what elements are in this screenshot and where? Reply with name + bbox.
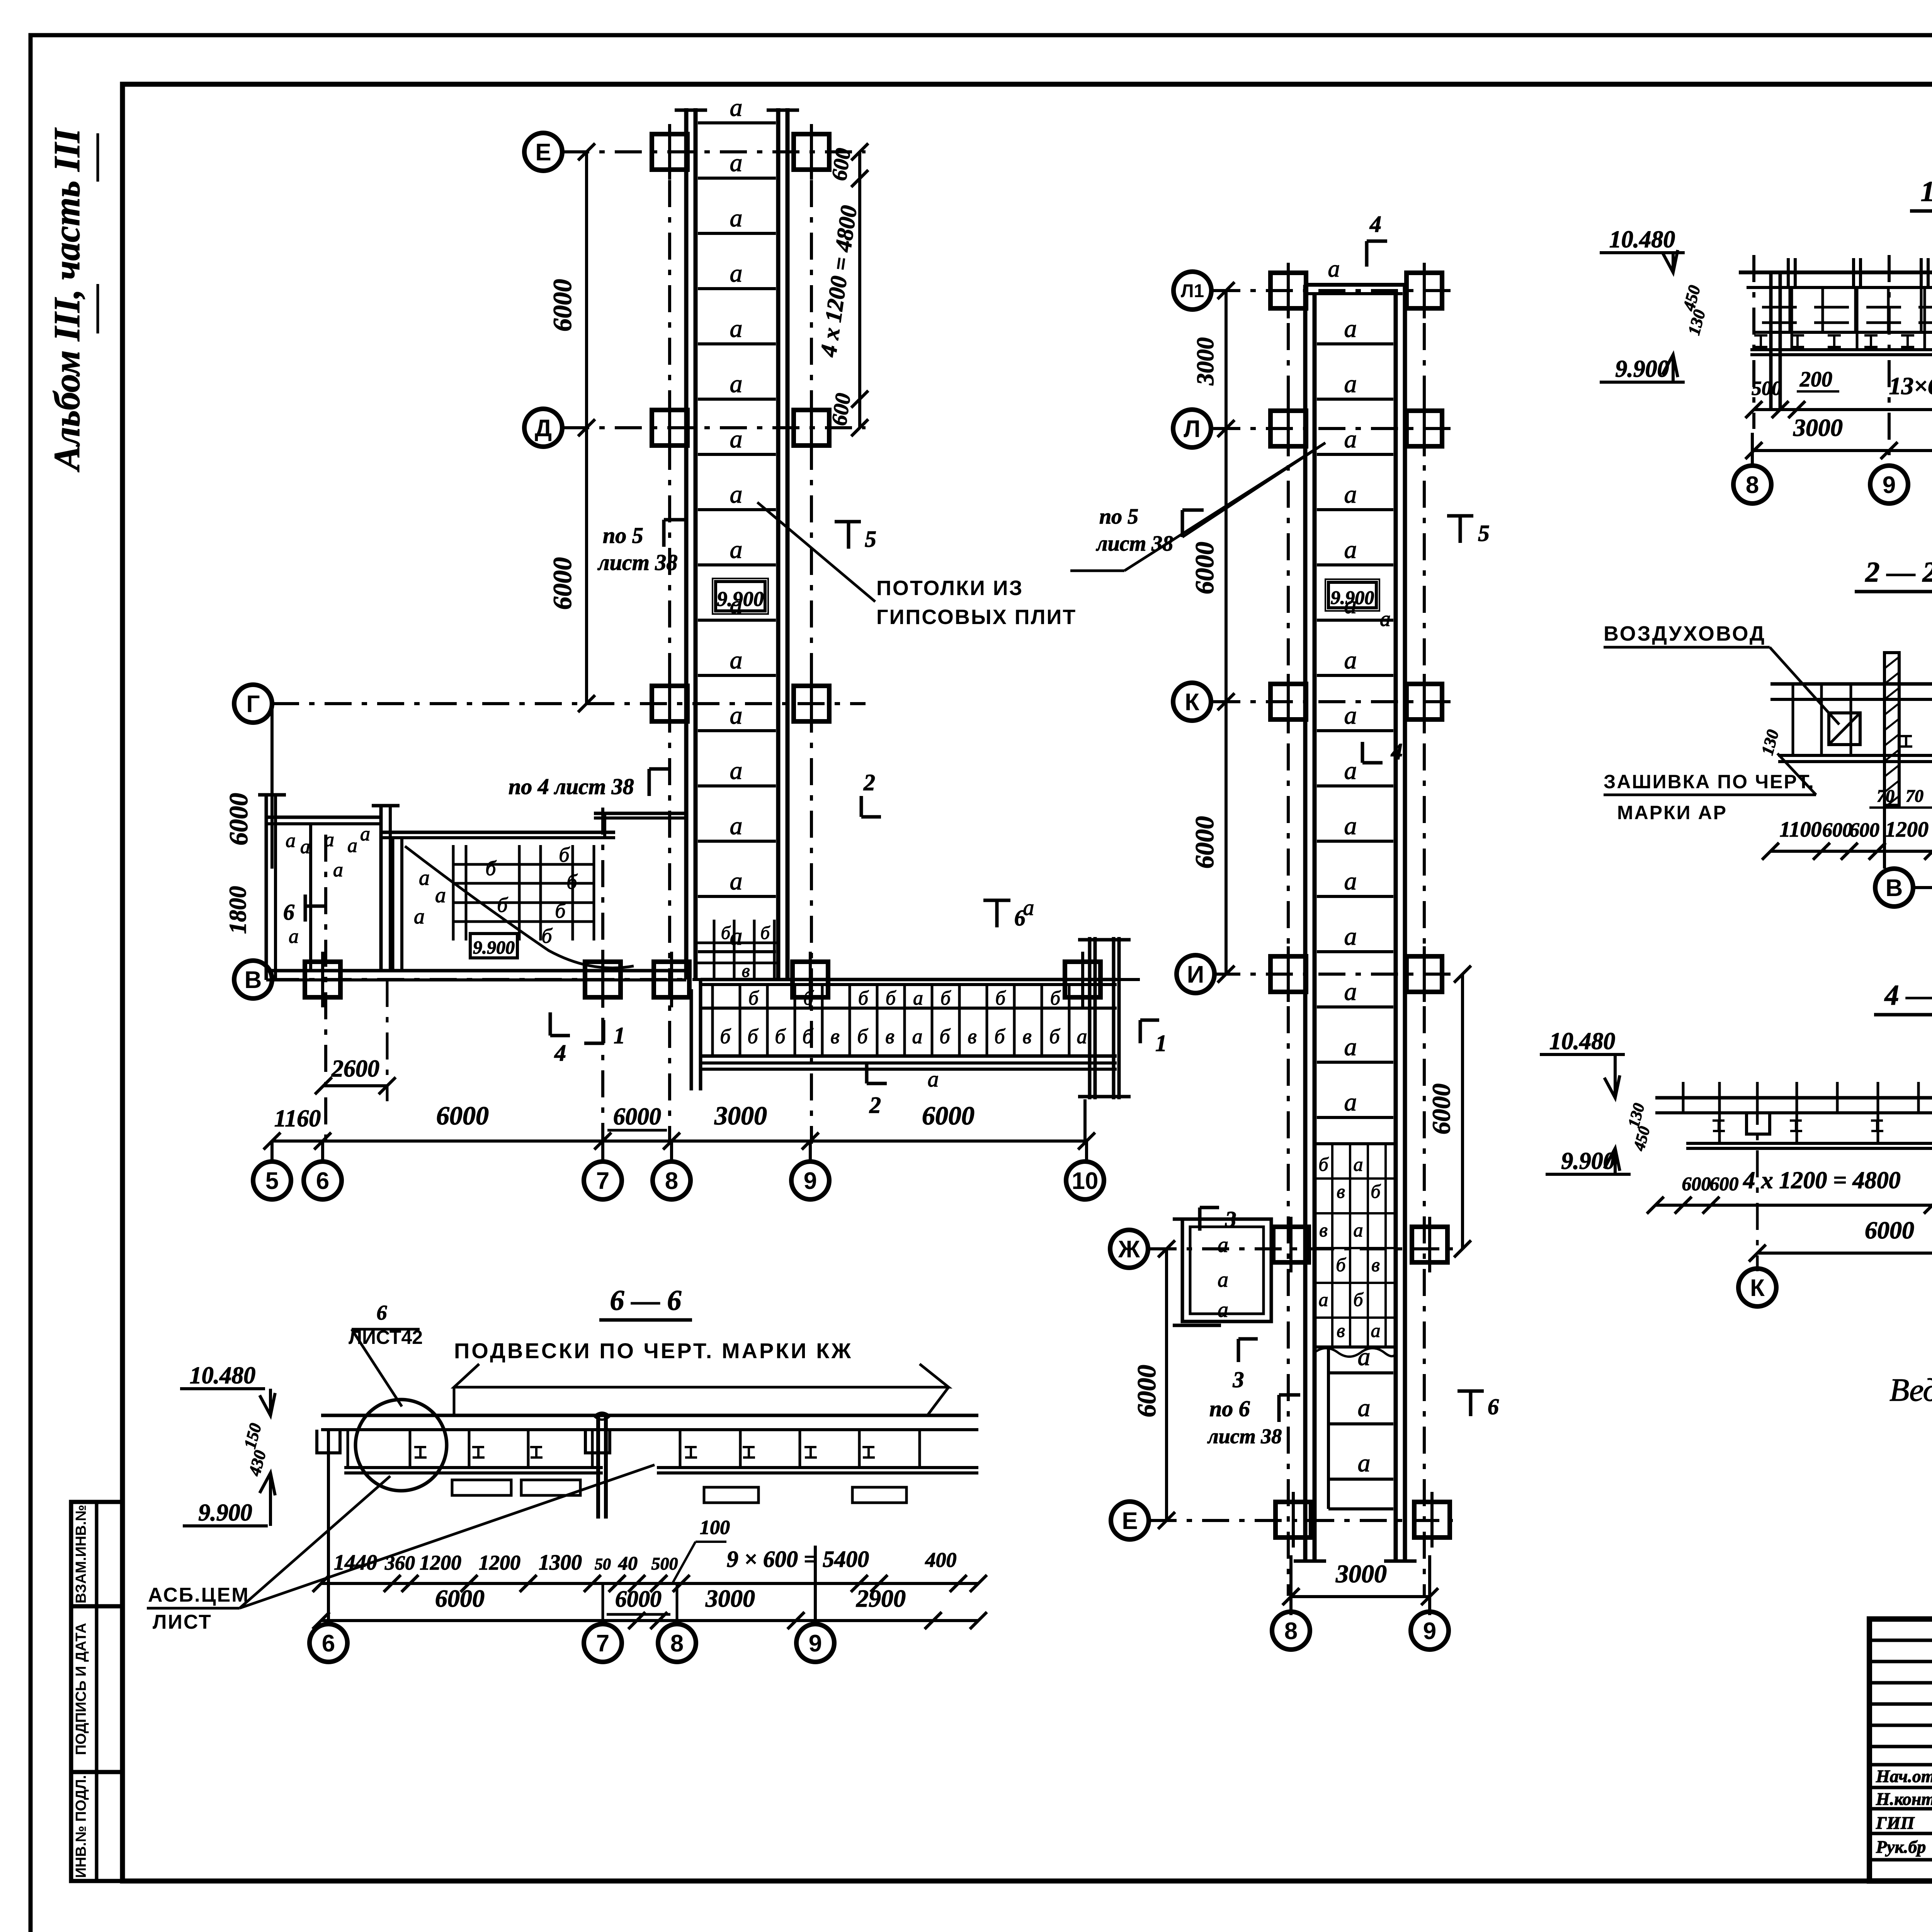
svg-text:8: 8 (665, 1168, 678, 1194)
svg-text:а: а (913, 987, 923, 1009)
svg-text:б: б (994, 1025, 1005, 1048)
svg-text:а: а (1023, 895, 1034, 920)
svg-text:а: а (1319, 1289, 1328, 1310)
svg-text:а: а (1344, 1088, 1357, 1116)
svg-text:а: а (1344, 701, 1357, 730)
svg-text:а: а (435, 883, 446, 907)
svg-text:б: б (802, 1025, 813, 1048)
svg-text:б: б (1336, 1254, 1346, 1276)
svg-text:б: б (940, 987, 951, 1009)
svg-text:а: а (730, 370, 743, 398)
svg-text:Ж: Ж (1118, 1236, 1140, 1263)
svg-text:4 х 1200 = 4800: 4 х 1200 = 4800 (1743, 1167, 1900, 1194)
svg-text:Рук.бр: Рук.бр (1876, 1837, 1926, 1857)
svg-text:в: в (1022, 1025, 1031, 1048)
svg-text:600: 600 (827, 147, 855, 182)
svg-text:ПОДПИСЬ И ДАТА: ПОДПИСЬ И ДАТА (73, 1623, 89, 1755)
svg-text:1 — 1: 1 — 1 (1921, 176, 1932, 207)
svg-text:3000: 3000 (1793, 414, 1843, 441)
svg-text:3000: 3000 (714, 1101, 767, 1130)
svg-text:9.900: 9.900 (1615, 356, 1669, 382)
svg-text:2 — 2: 2 — 2 (1865, 556, 1932, 588)
svg-text:а: а (730, 480, 743, 509)
svg-text:6000: 6000 (224, 793, 253, 845)
svg-text:7: 7 (596, 1168, 609, 1194)
svg-text:а: а (730, 701, 743, 730)
svg-text:б: б (485, 857, 497, 880)
svg-text:4: 4 (554, 1040, 566, 1066)
svg-text:а: а (1344, 757, 1357, 785)
svg-text:Л: Л (1184, 416, 1201, 442)
svg-text:3: 3 (1233, 1367, 1244, 1392)
svg-text:ВЗАМ.ИНВ.№: ВЗАМ.ИНВ.№ (73, 1505, 89, 1604)
svg-text:а: а (360, 823, 370, 845)
svg-text:ПОДВЕСКИ ПО ЧЕРТ. МАРКИ КЖ: ПОДВЕСКИ ПО ЧЕРТ. МАРКИ КЖ (454, 1338, 853, 1363)
svg-text:а: а (912, 1025, 923, 1048)
svg-text:600: 600 (1682, 1173, 1711, 1194)
svg-text:К: К (1750, 1275, 1765, 1301)
svg-text:лист 38: лист 38 (1207, 1425, 1282, 1448)
svg-text:6000: 6000 (922, 1101, 975, 1130)
svg-text:б: б (803, 987, 814, 1009)
svg-text:а: а (347, 835, 357, 857)
svg-text:1200: 1200 (1885, 818, 1929, 842)
svg-text:6000: 6000 (1190, 542, 1219, 594)
svg-text:6000: 6000 (615, 1586, 662, 1612)
svg-text:6000: 6000 (1865, 1216, 1914, 1244)
svg-text:в: в (885, 1025, 894, 1048)
svg-text:500: 500 (651, 1554, 678, 1573)
svg-text:6: 6 (283, 900, 294, 925)
svg-text:а: а (1358, 1449, 1371, 1477)
svg-text:10.480: 10.480 (1609, 226, 1675, 253)
svg-text:а: а (419, 866, 430, 890)
svg-text:5: 5 (265, 1168, 279, 1194)
svg-text:3000: 3000 (1335, 1560, 1387, 1588)
svg-text:а: а (300, 836, 310, 858)
svg-text:Е: Е (535, 139, 551, 166)
svg-text:а: а (1328, 256, 1340, 282)
svg-text:а: а (730, 757, 743, 785)
svg-text:а: а (1218, 1268, 1228, 1292)
svg-text:8: 8 (670, 1630, 684, 1657)
svg-text:ГИП: ГИП (1876, 1813, 1915, 1833)
svg-text:а: а (730, 315, 743, 343)
svg-text:ГИПСОВЫХ ПЛИТ: ГИПСОВЫХ ПЛИТ (876, 605, 1077, 629)
svg-text:а: а (1344, 1033, 1357, 1061)
svg-text:Д: Д (535, 415, 552, 442)
svg-text:2900: 2900 (856, 1585, 906, 1612)
svg-text:а: а (730, 812, 743, 840)
svg-text:400: 400 (925, 1548, 957, 1571)
svg-text:2: 2 (863, 770, 875, 795)
svg-text:ВОЗДУХОВОД: ВОЗДУХОВОД (1604, 622, 1766, 645)
svg-text:б: б (1371, 1180, 1381, 1202)
svg-text:ИНВ.№ ПОДЛ.: ИНВ.№ ПОДЛ. (73, 1775, 89, 1878)
svg-text:б: б (747, 1025, 759, 1048)
svg-text:в: в (830, 1025, 839, 1048)
svg-text:1800: 1800 (225, 886, 251, 934)
svg-text:9: 9 (1423, 1618, 1436, 1645)
svg-text:б: б (939, 1025, 951, 1048)
svg-text:9.900: 9.900 (1331, 587, 1374, 608)
svg-text:2: 2 (869, 1092, 881, 1118)
svg-text:6: 6 (1488, 1394, 1499, 1419)
svg-text:б: б (566, 870, 578, 893)
svg-text:а: а (289, 925, 299, 947)
svg-text:а: а (730, 425, 743, 453)
svg-text:4 — 4: 4 — 4 (1884, 980, 1932, 1011)
svg-text:В: В (1886, 875, 1903, 901)
svg-text:4: 4 (1391, 739, 1403, 764)
svg-text:13×600 = 7800: 13×600 = 7800 (1889, 372, 1932, 400)
svg-text:а: а (730, 149, 743, 177)
svg-text:6: 6 (316, 1168, 329, 1194)
svg-text:б: б (497, 893, 508, 917)
svg-text:200: 200 (1799, 367, 1832, 391)
svg-text:б: б (555, 899, 566, 922)
svg-text:а: а (1218, 1233, 1228, 1257)
svg-text:а: а (1344, 425, 1357, 453)
svg-text:40: 40 (618, 1552, 638, 1574)
svg-text:1100: 1100 (1780, 818, 1822, 842)
svg-text:1200: 1200 (479, 1551, 520, 1574)
svg-text:а: а (1354, 1219, 1363, 1241)
svg-text:50: 50 (595, 1556, 611, 1573)
svg-text:8: 8 (1746, 472, 1759, 498)
svg-text:600: 600 (1710, 1173, 1739, 1194)
svg-text:а: а (414, 905, 425, 929)
svg-text:б: б (1318, 1153, 1329, 1175)
svg-text:9: 9 (804, 1168, 817, 1194)
svg-text:6000: 6000 (548, 557, 577, 610)
svg-text:а: а (1344, 812, 1357, 840)
svg-text:б: б (748, 987, 759, 1009)
svg-text:Л1: Л1 (1181, 281, 1204, 301)
svg-text:а: а (1358, 1343, 1371, 1371)
svg-text:1440: 1440 (334, 1551, 377, 1575)
svg-text:б: б (775, 1025, 786, 1048)
svg-text:по 6: по 6 (1209, 1396, 1250, 1421)
svg-text:ПОТОЛКИ ИЗ: ПОТОЛКИ ИЗ (876, 577, 1023, 600)
svg-text:10.480: 10.480 (190, 1362, 256, 1389)
svg-text:б: б (858, 987, 869, 1009)
svg-text:а: а (1344, 536, 1357, 564)
svg-text:а: а (730, 922, 743, 951)
svg-text:3000: 3000 (705, 1585, 755, 1612)
svg-text:Альбом III, часть III: Альбом III, часть III (46, 128, 87, 472)
svg-text:в: в (1337, 1180, 1345, 1202)
svg-text:3: 3 (1225, 1207, 1236, 1232)
svg-text:а: а (1344, 646, 1357, 674)
svg-text:б: б (720, 1025, 731, 1048)
svg-text:6000: 6000 (548, 279, 577, 332)
svg-text:б: б (886, 987, 896, 1009)
svg-text:7: 7 (596, 1630, 609, 1657)
svg-text:а: а (1354, 1153, 1363, 1175)
svg-text:а: а (1344, 480, 1357, 509)
svg-text:5: 5 (865, 526, 876, 552)
svg-text:б: б (995, 987, 1006, 1009)
svg-text:100: 100 (700, 1517, 730, 1539)
svg-text:а: а (730, 204, 743, 232)
svg-text:б: б (721, 923, 731, 943)
svg-text:б: б (857, 1025, 868, 1048)
svg-text:по 5: по 5 (603, 523, 643, 548)
svg-text:Нач.отд: Нач.отд (1876, 1766, 1932, 1786)
svg-text:а: а (1344, 867, 1357, 895)
svg-text:АСБ.ЦЕМ: АСБ.ЦЕМ (148, 1584, 250, 1606)
svg-text:4: 4 (1369, 211, 1381, 237)
svg-text:а: а (730, 536, 743, 564)
svg-text:70: 70 (1877, 786, 1895, 806)
svg-text:а: а (324, 829, 334, 851)
svg-text:6000: 6000 (435, 1585, 485, 1612)
svg-text:10: 10 (1072, 1168, 1099, 1194)
svg-text:по 4 лист 38: по 4 лист 38 (509, 774, 634, 799)
svg-text:70: 70 (1906, 786, 1923, 806)
svg-text:б: б (1050, 987, 1061, 1009)
svg-text:а: а (1218, 1298, 1228, 1322)
svg-text:лист 38: лист 38 (1096, 532, 1173, 556)
svg-text:9.900: 9.900 (198, 1500, 252, 1526)
svg-text:1160: 1160 (274, 1105, 321, 1132)
svg-text:б: б (760, 923, 770, 943)
svg-text:а: а (730, 867, 743, 895)
svg-text:1: 1 (1155, 1031, 1167, 1056)
svg-text:6000: 6000 (436, 1101, 489, 1130)
svg-text:1300: 1300 (539, 1551, 582, 1575)
svg-text:9: 9 (1883, 472, 1896, 498)
svg-text:В: В (245, 967, 262, 993)
svg-text:Ведомость элементов на лист: Ведомость элементов на листе 37. (1889, 1372, 1932, 1408)
svg-text:9.900: 9.900 (717, 587, 764, 611)
svg-text:а: а (1344, 370, 1357, 398)
svg-text:9.900: 9.900 (473, 937, 515, 958)
svg-text:1: 1 (614, 1023, 625, 1048)
svg-text:360: 360 (384, 1552, 415, 1574)
svg-text:600: 600 (1822, 819, 1852, 841)
svg-text:10.480: 10.480 (1549, 1028, 1616, 1054)
svg-text:9: 9 (809, 1630, 822, 1657)
svg-text:а: а (730, 646, 743, 674)
svg-text:б: б (1353, 1289, 1364, 1310)
svg-text:по 5: по 5 (1099, 505, 1138, 529)
svg-text:ЗАШИВКА ПО ЧЕРТ.: ЗАШИВКА ПО ЧЕРТ. (1604, 771, 1815, 793)
svg-text:600: 600 (1849, 819, 1879, 841)
svg-text:б: б (541, 924, 553, 947)
svg-text:а: а (286, 830, 296, 852)
svg-text:ЛИСТ42: ЛИСТ42 (349, 1327, 423, 1348)
svg-text:9 × 600 = 5400: 9 × 600 = 5400 (727, 1546, 869, 1572)
svg-text:6000: 6000 (1427, 1083, 1456, 1134)
svg-text:МАРКИ АР: МАРКИ АР (1617, 802, 1727, 823)
svg-text:1200: 1200 (420, 1551, 461, 1574)
svg-text:а: а (730, 94, 743, 122)
svg-text:а: а (1380, 607, 1391, 631)
svg-text:в: в (1319, 1219, 1328, 1241)
svg-text:Н.контр: Н.контр (1876, 1789, 1932, 1809)
svg-text:в: в (1337, 1320, 1345, 1341)
svg-text:6000: 6000 (1190, 816, 1219, 869)
svg-text:а: а (1358, 1394, 1371, 1422)
svg-text:И: И (1187, 961, 1204, 988)
svg-text:ЛИСТ: ЛИСТ (153, 1611, 212, 1633)
svg-text:3000: 3000 (1192, 337, 1219, 386)
svg-text:б: б (1049, 1025, 1060, 1048)
svg-text:а: а (1344, 978, 1357, 1006)
svg-text:а: а (333, 859, 343, 881)
svg-text:а: а (928, 1066, 939, 1092)
svg-text:600: 600 (827, 392, 855, 427)
svg-text:б: б (559, 843, 570, 866)
svg-text:Е: Е (1122, 1508, 1138, 1534)
svg-text:6000: 6000 (613, 1104, 661, 1130)
svg-text:6: 6 (377, 1301, 387, 1324)
svg-text:500: 500 (1752, 378, 1782, 400)
svg-text:2600: 2600 (331, 1056, 379, 1082)
svg-text:а: а (1344, 315, 1357, 343)
svg-text:а: а (1077, 1025, 1087, 1048)
svg-text:6: 6 (322, 1630, 335, 1657)
svg-text:а: а (730, 259, 743, 287)
svg-text:6000: 6000 (1132, 1365, 1161, 1417)
svg-text:6 — 6: 6 — 6 (610, 1285, 682, 1316)
svg-text:в: в (1371, 1254, 1380, 1276)
svg-text:К: К (1185, 689, 1199, 716)
svg-text:в: в (968, 1025, 976, 1048)
svg-text:а: а (1344, 922, 1357, 951)
svg-text:а: а (1371, 1320, 1381, 1341)
svg-text:8: 8 (1284, 1618, 1298, 1645)
svg-text:5: 5 (1478, 520, 1490, 546)
svg-text:лист 38: лист 38 (597, 550, 677, 575)
svg-text:Г: Г (246, 691, 260, 718)
